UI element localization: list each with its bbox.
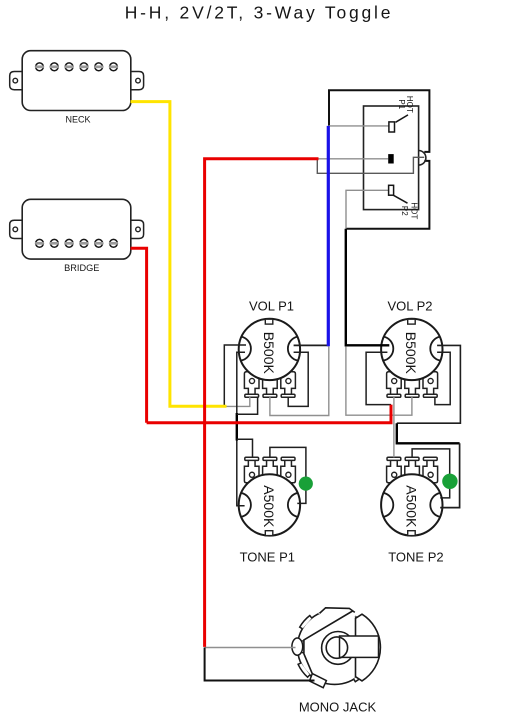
switch terminal hot P1 xyxy=(389,122,395,132)
svg-text:HOT: HOT xyxy=(409,202,418,219)
wire black tone p1 middle lug to casing via solder dot xyxy=(270,447,306,503)
wire black ground to jack sleeve tab xyxy=(205,648,315,681)
wire gray hot P1 stub xyxy=(328,125,389,127)
wire red long vertical to switch and jack xyxy=(205,159,319,647)
svg-text:B500K: B500K xyxy=(261,332,277,375)
svg-text:TONE P1: TONE P1 xyxy=(240,550,295,565)
wire black vol p1 casing-right-bottom to right lug xyxy=(288,352,308,406)
wire gray yellow junction to vol p1 left lug xyxy=(226,397,250,406)
wire black switch to vol p2 casing-top xyxy=(346,229,390,345)
toggle lever xyxy=(419,151,426,166)
svg-text:B500K: B500K xyxy=(403,332,419,375)
wire red bottom run to vol p2 xyxy=(147,405,391,423)
wire black vol p1 casing-bottom chain down to tone p1 casing xyxy=(237,352,245,413)
label HOT P2 xyxy=(400,202,418,219)
potentiometer TONE P1 xyxy=(239,457,300,535)
svg-text:VOL P1: VOL P1 xyxy=(249,299,294,314)
leader line to HOT P1 xyxy=(396,115,409,122)
jack hole circle xyxy=(326,637,347,658)
wire gray lever to red junction xyxy=(317,157,424,173)
svg-text:A500K: A500K xyxy=(261,485,277,528)
wire gray vol p2 left lug to tone p2 left lug xyxy=(393,397,395,457)
toggle switch body xyxy=(364,106,419,210)
wire black branch to vol p1 left lug xyxy=(237,397,258,414)
jack frame diagonals xyxy=(304,611,353,674)
jack tip contact ellipse xyxy=(292,638,303,655)
potentiometer VOL P2 xyxy=(381,319,442,398)
wire black tone p2 middle lug to casing via solder dot xyxy=(412,449,450,498)
neck pickup NECK xyxy=(10,51,144,111)
wire black vol p1 casing-top to yellow junction xyxy=(224,345,246,406)
jack top mounting tab xyxy=(320,608,355,616)
jack bottom solder tab xyxy=(310,674,327,688)
jack threaded sleeve D-plate xyxy=(356,614,381,681)
switch terminal common (filled) xyxy=(388,154,394,163)
jack barrel rect xyxy=(340,636,379,657)
jack lower-left notch xyxy=(298,663,310,677)
wire black vol p2 casing-right-bottom to right lug xyxy=(435,352,450,404)
wire gray output to jack tip xyxy=(205,647,296,649)
svg-text:P2: P2 xyxy=(400,206,409,216)
wire yellow neck hot to vol p1 xyxy=(131,102,227,407)
3-way toggle switch outer frame xyxy=(329,90,429,229)
jack tip neck lines xyxy=(302,641,304,653)
wire black vol p1 casing-right-top to blue xyxy=(294,344,329,346)
svg-text:H-H, 2V/2T, 3-Way Toggle: H-H, 2V/2T, 3-Way Toggle xyxy=(125,2,394,22)
svg-text:P1: P1 xyxy=(397,99,406,109)
switch terminal hot P2 xyxy=(389,185,394,195)
svg-text:TONE P2: TONE P2 xyxy=(388,550,443,565)
jack washer ring xyxy=(322,632,355,665)
svg-text:A500K: A500K xyxy=(404,485,420,528)
solder dot tone p2 xyxy=(442,474,457,489)
solder dot tone p1 xyxy=(299,477,313,491)
svg-text:VOL P2: VOL P2 xyxy=(387,299,432,314)
mono jack body circle xyxy=(292,608,381,688)
wire gray vol p2 middle lug loop xyxy=(346,346,412,415)
potentiometer TONE P2 xyxy=(381,457,442,535)
leader line to HOT P2 xyxy=(394,195,408,203)
svg-text:MONO JACK: MONO JACK xyxy=(299,700,377,715)
wire red bridge hot down xyxy=(131,248,147,423)
svg-text:BRIDGE: BRIDGE xyxy=(64,263,99,273)
wire gray vol p1 middle lug loop xyxy=(270,346,329,415)
svg-text:NECK: NECK xyxy=(65,114,90,124)
jack lower-right notch xyxy=(354,671,366,682)
wire gray switch common feed xyxy=(318,158,388,160)
wire black branch to tone p1 left lug xyxy=(237,439,253,457)
label HOT P1 xyxy=(397,96,414,113)
wire black vol p2 casing-right-top chain to tone p2 casing xyxy=(397,345,461,423)
wire blue switch hot p1 to vol p1 xyxy=(327,126,330,346)
wire gray hot P2 stub xyxy=(346,190,389,228)
jack upper-left notch xyxy=(300,616,312,629)
potentiometer VOL P1 xyxy=(239,319,300,398)
wire black vol p2 casing-left-bottom to red junction xyxy=(366,352,391,404)
bridge pickup BRIDGE xyxy=(10,199,144,259)
